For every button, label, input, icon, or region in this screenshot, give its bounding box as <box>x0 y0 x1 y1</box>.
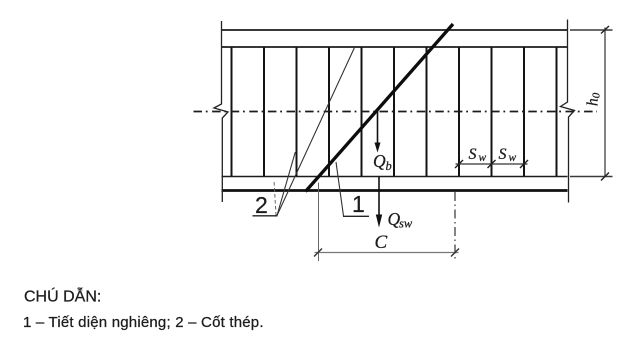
svg-text:b: b <box>386 159 392 173</box>
svg-text:1 – Tiết diện nghiêng; 2 – Cốt: 1 – Tiết diện nghiêng; 2 – Cốt thép. <box>23 314 264 331</box>
svg-text:2: 2 <box>255 192 268 218</box>
svg-text:S: S <box>469 146 477 163</box>
svg-text:S: S <box>499 146 507 163</box>
svg-text:1: 1 <box>352 191 365 217</box>
svg-text:w: w <box>509 152 517 164</box>
svg-text:CHÚ DẪN:: CHÚ DẪN: <box>24 287 101 306</box>
svg-text:C: C <box>375 232 388 253</box>
svg-text:w: w <box>479 152 487 164</box>
svg-text:Q: Q <box>373 151 386 171</box>
svg-text:sw: sw <box>399 217 413 231</box>
svg-text:h0: h0 <box>585 92 603 106</box>
